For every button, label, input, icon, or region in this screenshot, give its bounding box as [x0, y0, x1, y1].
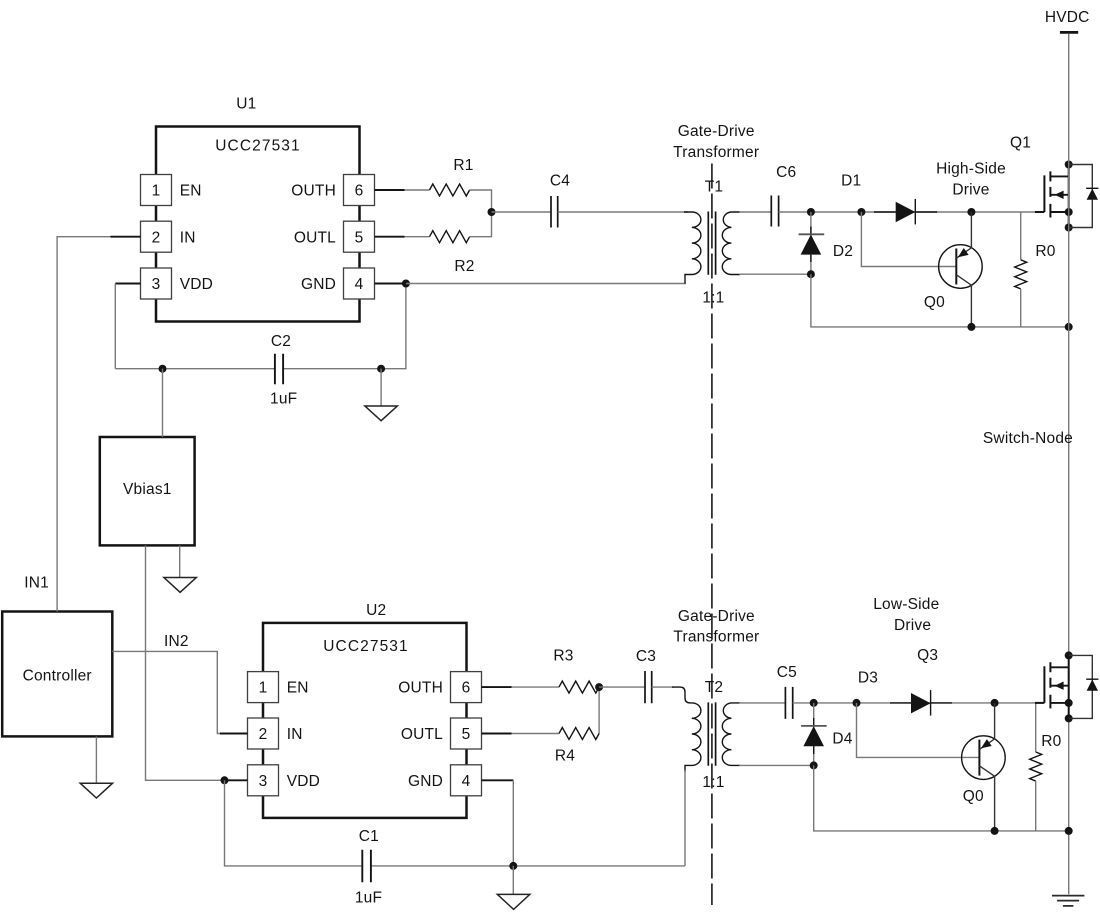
- wire Q3 body-diode branch: [1069, 655, 1093, 718]
- junction dot (Q0 emitter on return rail): [967, 323, 975, 331]
- wire Q1 body-diode branch: [1069, 165, 1093, 228]
- transistor Q1 gate bar: [1043, 175, 1045, 212]
- svg-text:High-Side: High-Side: [936, 161, 1006, 178]
- svg-text:1uF: 1uF: [355, 889, 382, 906]
- transistor Q0 (high side): [939, 245, 983, 289]
- pin 4 box (U1 GND): [344, 268, 375, 299]
- transformer T2 core: [708, 702, 715, 765]
- svg-text:D4: D4: [832, 731, 852, 748]
- transistor Q1 drain stub: [1050, 175, 1068, 177]
- junction dot (C5/D4/D3 node): [810, 699, 818, 707]
- svg-text:T2: T2: [705, 679, 724, 696]
- wire Q1 vertical (drain-source): [1068, 165, 1070, 228]
- pin 1 box (U2 EN): [248, 672, 279, 703]
- svg-text:3: 3: [259, 773, 268, 790]
- capacitor C6: [771, 196, 778, 227]
- capacitor C1: [362, 850, 371, 883]
- resistor R3: [559, 681, 599, 693]
- junction dot (Vbias1 tap on C2 rail): [159, 365, 167, 373]
- ground (controller): [95, 737, 97, 784]
- diode (Q3 body): [1086, 678, 1098, 680]
- wire C2 rail right + riser to pin4 row: [283, 284, 406, 369]
- svg-text:R1: R1: [453, 157, 473, 174]
- svg-text:OUTH: OUTH: [291, 183, 336, 200]
- transistor Q0 (low side): [962, 736, 1006, 780]
- wire gate lead black: [1035, 702, 1044, 704]
- svg-text:1uF: 1uF: [270, 391, 297, 408]
- wire U1 GND to T1 primary return: [406, 283, 686, 285]
- svg-text:C3: C3: [636, 648, 656, 665]
- svg-text:1:1: 1:1: [702, 290, 724, 307]
- diode D2: [810, 227, 812, 263]
- pin 2 box (U1 IN): [141, 221, 172, 252]
- svg-text:Switch-Node: Switch-Node: [983, 430, 1073, 447]
- svg-text:EN: EN: [287, 680, 309, 697]
- junction dot (D4 bottom / return): [810, 761, 818, 769]
- wire R1 to junction: [470, 190, 492, 212]
- junction dot (Q3 drain): [1065, 651, 1073, 659]
- junction dot (base tap): [857, 208, 865, 216]
- wire stub U2 pin2: [220, 733, 248, 735]
- junction dot (return rail / ground rail): [1065, 827, 1073, 835]
- svg-text:C5: C5: [777, 664, 797, 681]
- resistor R4: [559, 728, 599, 740]
- svg-text:C2: C2: [271, 333, 291, 350]
- svg-text:Q3: Q3: [917, 647, 938, 664]
- junction dot (D3 cathode node): [991, 699, 999, 707]
- wire C1 rail right: [371, 865, 685, 867]
- transformer T2 secondary winding: [722, 703, 740, 766]
- svg-text:OUTL: OUTL: [294, 229, 336, 246]
- ground (earth, power stage): [1052, 896, 1084, 906]
- svg-text:5: 5: [355, 229, 364, 246]
- resistor R1: [430, 184, 470, 196]
- transformer T1 core: [708, 212, 715, 275]
- svg-text:4: 4: [355, 276, 364, 293]
- svg-text:4: 4: [462, 773, 471, 790]
- wire pin5 to R4: [512, 733, 560, 735]
- wire Vbias1 bottom to U2 pin3: [146, 546, 248, 781]
- wire T1 secondary top to C6: [739, 211, 771, 213]
- junction dot (Q1 source): [1065, 208, 1073, 216]
- block Controller: [2, 612, 112, 737]
- svg-text:C6: C6: [776, 164, 796, 181]
- wire stub U2 pin4: [482, 779, 514, 781]
- junction dot (return rail / switch node): [1065, 323, 1073, 331]
- wire low-side return rail: [814, 765, 1069, 831]
- svg-text:Q0: Q0: [963, 788, 984, 805]
- pin 6 box (U2 OUTH): [451, 672, 482, 703]
- svg-text:VDD: VDD: [180, 276, 213, 293]
- pin 6 box (U1 OUTH): [344, 175, 375, 206]
- wire U1 pin3 to C2 rail: [114, 284, 116, 369]
- wire D4 branch: [813, 703, 815, 766]
- pin 1 box (U1 EN): [141, 175, 172, 206]
- svg-text:Transformer: Transformer: [673, 144, 759, 161]
- wire stub U1 pin2: [111, 236, 141, 238]
- junction dot (D2 bottom / return): [807, 270, 815, 278]
- diode D1: [874, 211, 937, 213]
- svg-text:C1: C1: [359, 828, 379, 845]
- svg-text:Q0: Q0: [924, 294, 945, 311]
- wire C5 to gate drive line: [793, 702, 1035, 704]
- pin 5 box (U1 OUTL): [344, 221, 375, 252]
- op-amp U1 body: [156, 127, 360, 322]
- wire stub U1 pin5: [375, 236, 405, 238]
- pin 5 box (U2 OUTL): [451, 718, 482, 749]
- wire C3 to T2 primary: [652, 686, 674, 688]
- svg-text:6: 6: [462, 680, 471, 697]
- wire gate lead black: [1035, 211, 1044, 213]
- svg-text:Drive: Drive: [952, 182, 989, 199]
- wire HVDC rail down to Q1 drain: [1068, 34, 1070, 165]
- svg-text:IN2: IN2: [164, 633, 189, 650]
- wire pin6 to R1: [405, 189, 430, 191]
- wire Vbias1 top: [162, 369, 164, 437]
- svg-text:OUTH: OUTH: [398, 680, 443, 697]
- svg-text:EN: EN: [180, 183, 202, 200]
- svg-text:OUTL: OUTL: [401, 726, 443, 743]
- resistor R0 (low side): [1035, 703, 1037, 752]
- wire junction to C3: [599, 686, 645, 688]
- wire pin6 to R3: [512, 686, 560, 688]
- wire Q3 vertical (drain-source): [1068, 655, 1070, 718]
- wire U2 GND down to C1 rail: [512, 780, 514, 866]
- svg-text:GND: GND: [301, 276, 336, 293]
- svg-text:2: 2: [152, 229, 161, 246]
- svg-text:R3: R3: [553, 648, 573, 665]
- junction dot (U2 VDD / C1 branch): [221, 776, 229, 784]
- transformer T1 primary winding: [684, 212, 701, 284]
- diode D4: [813, 718, 815, 754]
- wire stub U1 pin6: [375, 189, 405, 191]
- wire IN1 (controller top to U1 pin2): [57, 237, 112, 612]
- svg-text:1: 1: [259, 680, 268, 697]
- diode (Q1 body): [1086, 187, 1098, 189]
- transistor Q3 channel dashes: [1049, 662, 1051, 708]
- svg-text:T1: T1: [705, 178, 724, 195]
- junction dot (U2 GND on C1 rail): [509, 862, 517, 870]
- ground (C2 rail): [380, 369, 382, 406]
- transistor Q3 gate bar: [1043, 666, 1045, 703]
- wire T2 secondary top to C5: [739, 702, 785, 704]
- svg-text:Drive: Drive: [894, 617, 931, 634]
- junction dot (Q3 body return): [1065, 714, 1073, 722]
- resistor R2: [430, 231, 470, 243]
- svg-text:R0: R0: [1041, 733, 1061, 750]
- wire T1 secondary bottom: [739, 273, 811, 275]
- svg-text:D1: D1: [841, 173, 861, 190]
- transistor Q1 channel dashes: [1049, 171, 1051, 217]
- junction dot (Q1 drain): [1065, 161, 1073, 169]
- junction dot (Q3 source): [1065, 699, 1073, 707]
- wire stub U1 pin4: [375, 283, 406, 285]
- wire T2 secondary bottom: [739, 764, 814, 766]
- wire main vertical rail: [1068, 165, 1070, 895]
- svg-text:IN: IN: [287, 726, 303, 743]
- svg-text:Q1: Q1: [1010, 135, 1031, 152]
- wire pin5 to R2: [405, 236, 430, 238]
- svg-text:U2: U2: [366, 602, 386, 619]
- transistor Q1 body stub with arrow: [1050, 194, 1068, 196]
- svg-text:2: 2: [259, 726, 268, 743]
- pin 3 box (U2 VDD): [248, 765, 279, 796]
- svg-text:Gate-Drive: Gate-Drive: [678, 608, 755, 625]
- transformer T2 primary winding: [672, 687, 701, 772]
- wire R2 to junction: [470, 212, 492, 237]
- junction dot (R3/R4): [595, 683, 603, 691]
- svg-text:Transformer: Transformer: [673, 628, 759, 645]
- svg-text:1: 1: [152, 183, 161, 200]
- junction dot (D1 cathode node): [967, 208, 975, 216]
- wire C1 rail left: [225, 780, 363, 866]
- wire C2 rail left: [115, 368, 275, 370]
- svg-text:D3: D3: [858, 669, 878, 686]
- svg-text:1:1: 1:1: [702, 774, 724, 791]
- svg-text:6: 6: [355, 183, 364, 200]
- svg-text:U1: U1: [236, 96, 256, 113]
- svg-text:D2: D2: [833, 243, 853, 260]
- svg-text:Controller: Controller: [23, 668, 92, 685]
- svg-text:UCC27531: UCC27531: [323, 638, 408, 655]
- transistor Q3 source stub: [1050, 702, 1068, 704]
- diode D3: [890, 702, 952, 704]
- transistor Q1 source stub: [1050, 211, 1068, 213]
- svg-text:Vbias1: Vbias1: [123, 481, 172, 498]
- transistor Q3 drain stub: [1050, 666, 1068, 668]
- pin 4 box (U2 GND): [451, 765, 482, 796]
- svg-text:IN: IN: [180, 229, 196, 246]
- wire C4 to T1 primary: [558, 211, 688, 213]
- wire IN2 (controller right to U2 pin2): [112, 651, 222, 733]
- op-amp U2 body: [263, 623, 467, 818]
- junction dot (C6/D2/D1 node): [807, 208, 815, 216]
- dashed isolation line: [711, 164, 713, 906]
- wire R4 up to junction: [598, 687, 600, 733]
- svg-text:5: 5: [462, 726, 471, 743]
- ground (Vbias1): [179, 546, 181, 578]
- svg-text:Low-Side: Low-Side: [873, 596, 939, 613]
- svg-text:C4: C4: [550, 173, 570, 190]
- transformer T1 secondary winding: [722, 212, 740, 275]
- capacitor C2: [275, 354, 283, 385]
- junction dot (Q0 emitter on return rail): [991, 827, 999, 835]
- ground (U2 / C1 rail): [512, 866, 514, 895]
- wire C6 to gate drive line: [779, 211, 1035, 213]
- resistor R0 (high side): [1020, 212, 1022, 260]
- wire stub U2 pin6: [482, 686, 512, 688]
- svg-text:R2: R2: [454, 258, 474, 275]
- svg-text:R4: R4: [555, 748, 575, 765]
- wire T2 primary return to C1 rail: [684, 770, 686, 866]
- svg-text:UCC27531: UCC27531: [215, 138, 300, 155]
- junction dot (base tap): [853, 699, 861, 707]
- wire D2 branch: [810, 212, 812, 274]
- svg-text:HVDC: HVDC: [1045, 9, 1090, 26]
- pin 2 box (U2 IN): [248, 718, 279, 749]
- block Vbias1: [100, 437, 195, 545]
- capacitor C4: [551, 196, 558, 228]
- capacitor C3: [645, 671, 652, 703]
- junction dot (pin4 riser): [402, 280, 410, 288]
- wire Q0 base tap: [857, 703, 980, 758]
- svg-text:GND: GND: [408, 773, 443, 790]
- junction dot (R1/R2): [488, 208, 496, 216]
- transistor Q3 body stub with arrow: [1050, 685, 1068, 687]
- pin 3 box (U1 VDD): [141, 268, 172, 299]
- wire stub U2 pin5: [482, 733, 512, 735]
- svg-text:3: 3: [152, 276, 161, 293]
- power bar HVDC: [1060, 31, 1078, 34]
- capacitor C5: [785, 687, 792, 719]
- wire Q0 base tap: [861, 212, 956, 267]
- wire stub U1 pin3: [115, 283, 140, 285]
- wire stub U2 pin3: [225, 779, 248, 781]
- svg-text:R0: R0: [1035, 243, 1055, 260]
- svg-text:VDD: VDD: [287, 773, 320, 790]
- svg-text:Gate-Drive: Gate-Drive: [678, 123, 755, 140]
- wire junction to C4: [492, 211, 552, 213]
- wire high-side return rail: [811, 274, 1069, 327]
- junction dot (ground tap on C2 rail): [377, 365, 385, 373]
- svg-text:IN1: IN1: [24, 575, 49, 592]
- junction dot (Q1 body return): [1065, 224, 1073, 232]
